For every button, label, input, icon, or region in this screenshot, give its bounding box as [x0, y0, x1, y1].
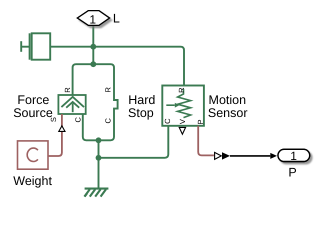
svg-text:P: P: [196, 119, 205, 124]
svg-text:P: P: [288, 166, 296, 180]
svg-text:Weight: Weight: [13, 174, 52, 188]
svg-text:L: L: [113, 12, 120, 26]
svg-text:R: R: [104, 87, 113, 93]
svg-text:C: C: [73, 117, 82, 123]
svg-text:Stop: Stop: [128, 106, 154, 120]
svg-text:C: C: [163, 118, 172, 124]
svg-text:S: S: [49, 117, 58, 122]
svg-text:V: V: [178, 119, 187, 124]
svg-text:R: R: [63, 87, 72, 93]
svg-text:Sensor: Sensor: [208, 106, 248, 120]
svg-text:R: R: [177, 87, 186, 93]
svg-text:1: 1: [89, 12, 96, 26]
svg-text:Source: Source: [13, 106, 53, 120]
svg-text:1: 1: [290, 149, 297, 163]
svg-text:C: C: [104, 118, 113, 124]
